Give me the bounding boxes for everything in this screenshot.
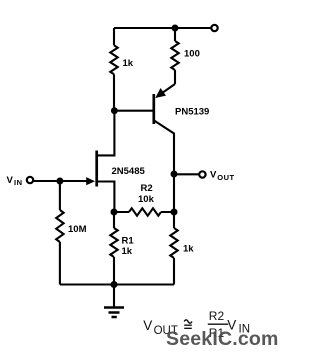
wire: Q1 collector diagonal and down to Vout node: [155, 121, 175, 212]
resistor 1k (right bottom): [170, 212, 177, 285]
resistor 1k (top left): [110, 28, 117, 111]
wire: Vout tap to terminal: [174, 173, 199, 175]
svg-text:R1: R1: [122, 235, 135, 246]
svg-text:V: V: [210, 169, 217, 180]
supply terminal (open circle, top right): [211, 25, 217, 31]
transistor Q1 PN5139 base bar: [152, 94, 155, 124]
node: R2 / 1k / Vout column junction: [171, 209, 178, 216]
ground symbol: [113, 285, 115, 308]
node: Vout tap junction: [171, 171, 178, 178]
node: junction of 1k, JFET drain, Q1 base: [111, 107, 118, 114]
svg-text:IN: IN: [14, 178, 23, 187]
transistor Q2 2N5485 channel bar: [95, 151, 98, 187]
wire: JFET drain up to node: [97, 112, 115, 155]
svg-text:PN5139: PN5139: [175, 107, 209, 118]
svg-text:R2: R2: [209, 309, 225, 323]
wire: top rail from 1k to supply terminal: [114, 27, 211, 29]
wire: Q1 base wire from node: [114, 110, 153, 112]
formula: VOUT approx (R2/R1) VIN: [143, 309, 250, 340]
svg-text:100: 100: [184, 49, 200, 60]
svg-text:10M: 10M: [68, 224, 87, 235]
svg-text:2N5485: 2N5485: [112, 166, 146, 177]
node: top-rail junction to 100 resistor: [172, 25, 179, 32]
wire: JFET source down to R1/R2 node: [97, 182, 115, 213]
Vout terminal (open circle): [199, 171, 205, 177]
svg-text:OUT: OUT: [217, 173, 234, 182]
svg-text:V: V: [143, 318, 152, 333]
wire: Vin to JFET gate: [34, 180, 88, 182]
emitter arrowhead of Q1 (PNP, pointing into base bar): [155, 88, 166, 98]
node: Vin/10M junction: [56, 178, 63, 185]
resistor R2 10k (horizontal): [114, 208, 174, 215]
resistor 10M: [56, 181, 63, 285]
svg-text:SeekIC.com: SeekIC.com: [166, 328, 279, 350]
svg-text:10k: 10k: [138, 194, 155, 205]
resistor 100: [171, 28, 178, 84]
node: ground junction on bottom rail: [111, 281, 118, 288]
svg-text:R2: R2: [141, 183, 153, 194]
wire: bottom rail: [60, 283, 174, 285]
svg-text:V: V: [7, 175, 14, 186]
approx-equal sign: [184, 320, 192, 328]
Vin terminal (open circle): [27, 177, 33, 183]
svg-text:1k: 1k: [123, 58, 134, 69]
resistor R1 1k: [110, 212, 117, 285]
wire: emitter diagonal from 100 resistor to Q1: [160, 84, 176, 95]
node: R1/R2/JFET source junction: [111, 209, 118, 216]
svg-text:1k: 1k: [122, 246, 133, 257]
svg-text:1k: 1k: [183, 244, 194, 255]
gate arrowhead of JFET Q2: [86, 177, 95, 185]
